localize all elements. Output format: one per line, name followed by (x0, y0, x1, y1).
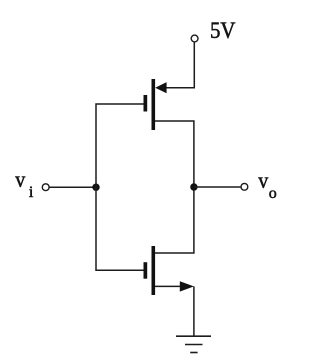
wire: PMOS drain to output rail (155, 121, 194, 187)
supply terminal (open circle) (191, 35, 198, 42)
NMOS gate plate (144, 262, 148, 279)
wire: NMOS source down to ground (193, 286, 195, 336)
PMOS channel bar (152, 79, 156, 130)
wire: output rail down to NMOS drain (155, 187, 194, 253)
NMOS source arrow (points out of channel) (180, 281, 194, 291)
input terminal (open circle) (42, 184, 49, 191)
svg-text:5V: 5V (210, 18, 236, 43)
junction: output node (190, 183, 197, 190)
wire: 5V terminal down to PMOS source (166, 42, 194, 87)
svg-text:v: v (15, 167, 25, 192)
NMOS channel bar (152, 246, 156, 295)
wire: output node to output terminal (194, 186, 241, 188)
junction: input node (92, 184, 99, 191)
wire: input terminal to gate rail (49, 186, 96, 188)
PMOS source arrow (points into channel) (155, 82, 166, 93)
svg-text:v: v (258, 168, 268, 193)
output terminal (open circle) (241, 183, 248, 190)
transistor M2 NMOS (144, 246, 194, 295)
svg-text:i: i (29, 184, 34, 201)
wire: gate rail (PMOS gate to NMOS gate) (96, 104, 144, 270)
transistor M1 PMOS (144, 79, 167, 130)
ground (176, 336, 211, 352)
svg-text:o: o (269, 185, 277, 202)
PMOS gate plate (144, 95, 148, 112)
wire: NMOS source to arrow (155, 285, 181, 287)
